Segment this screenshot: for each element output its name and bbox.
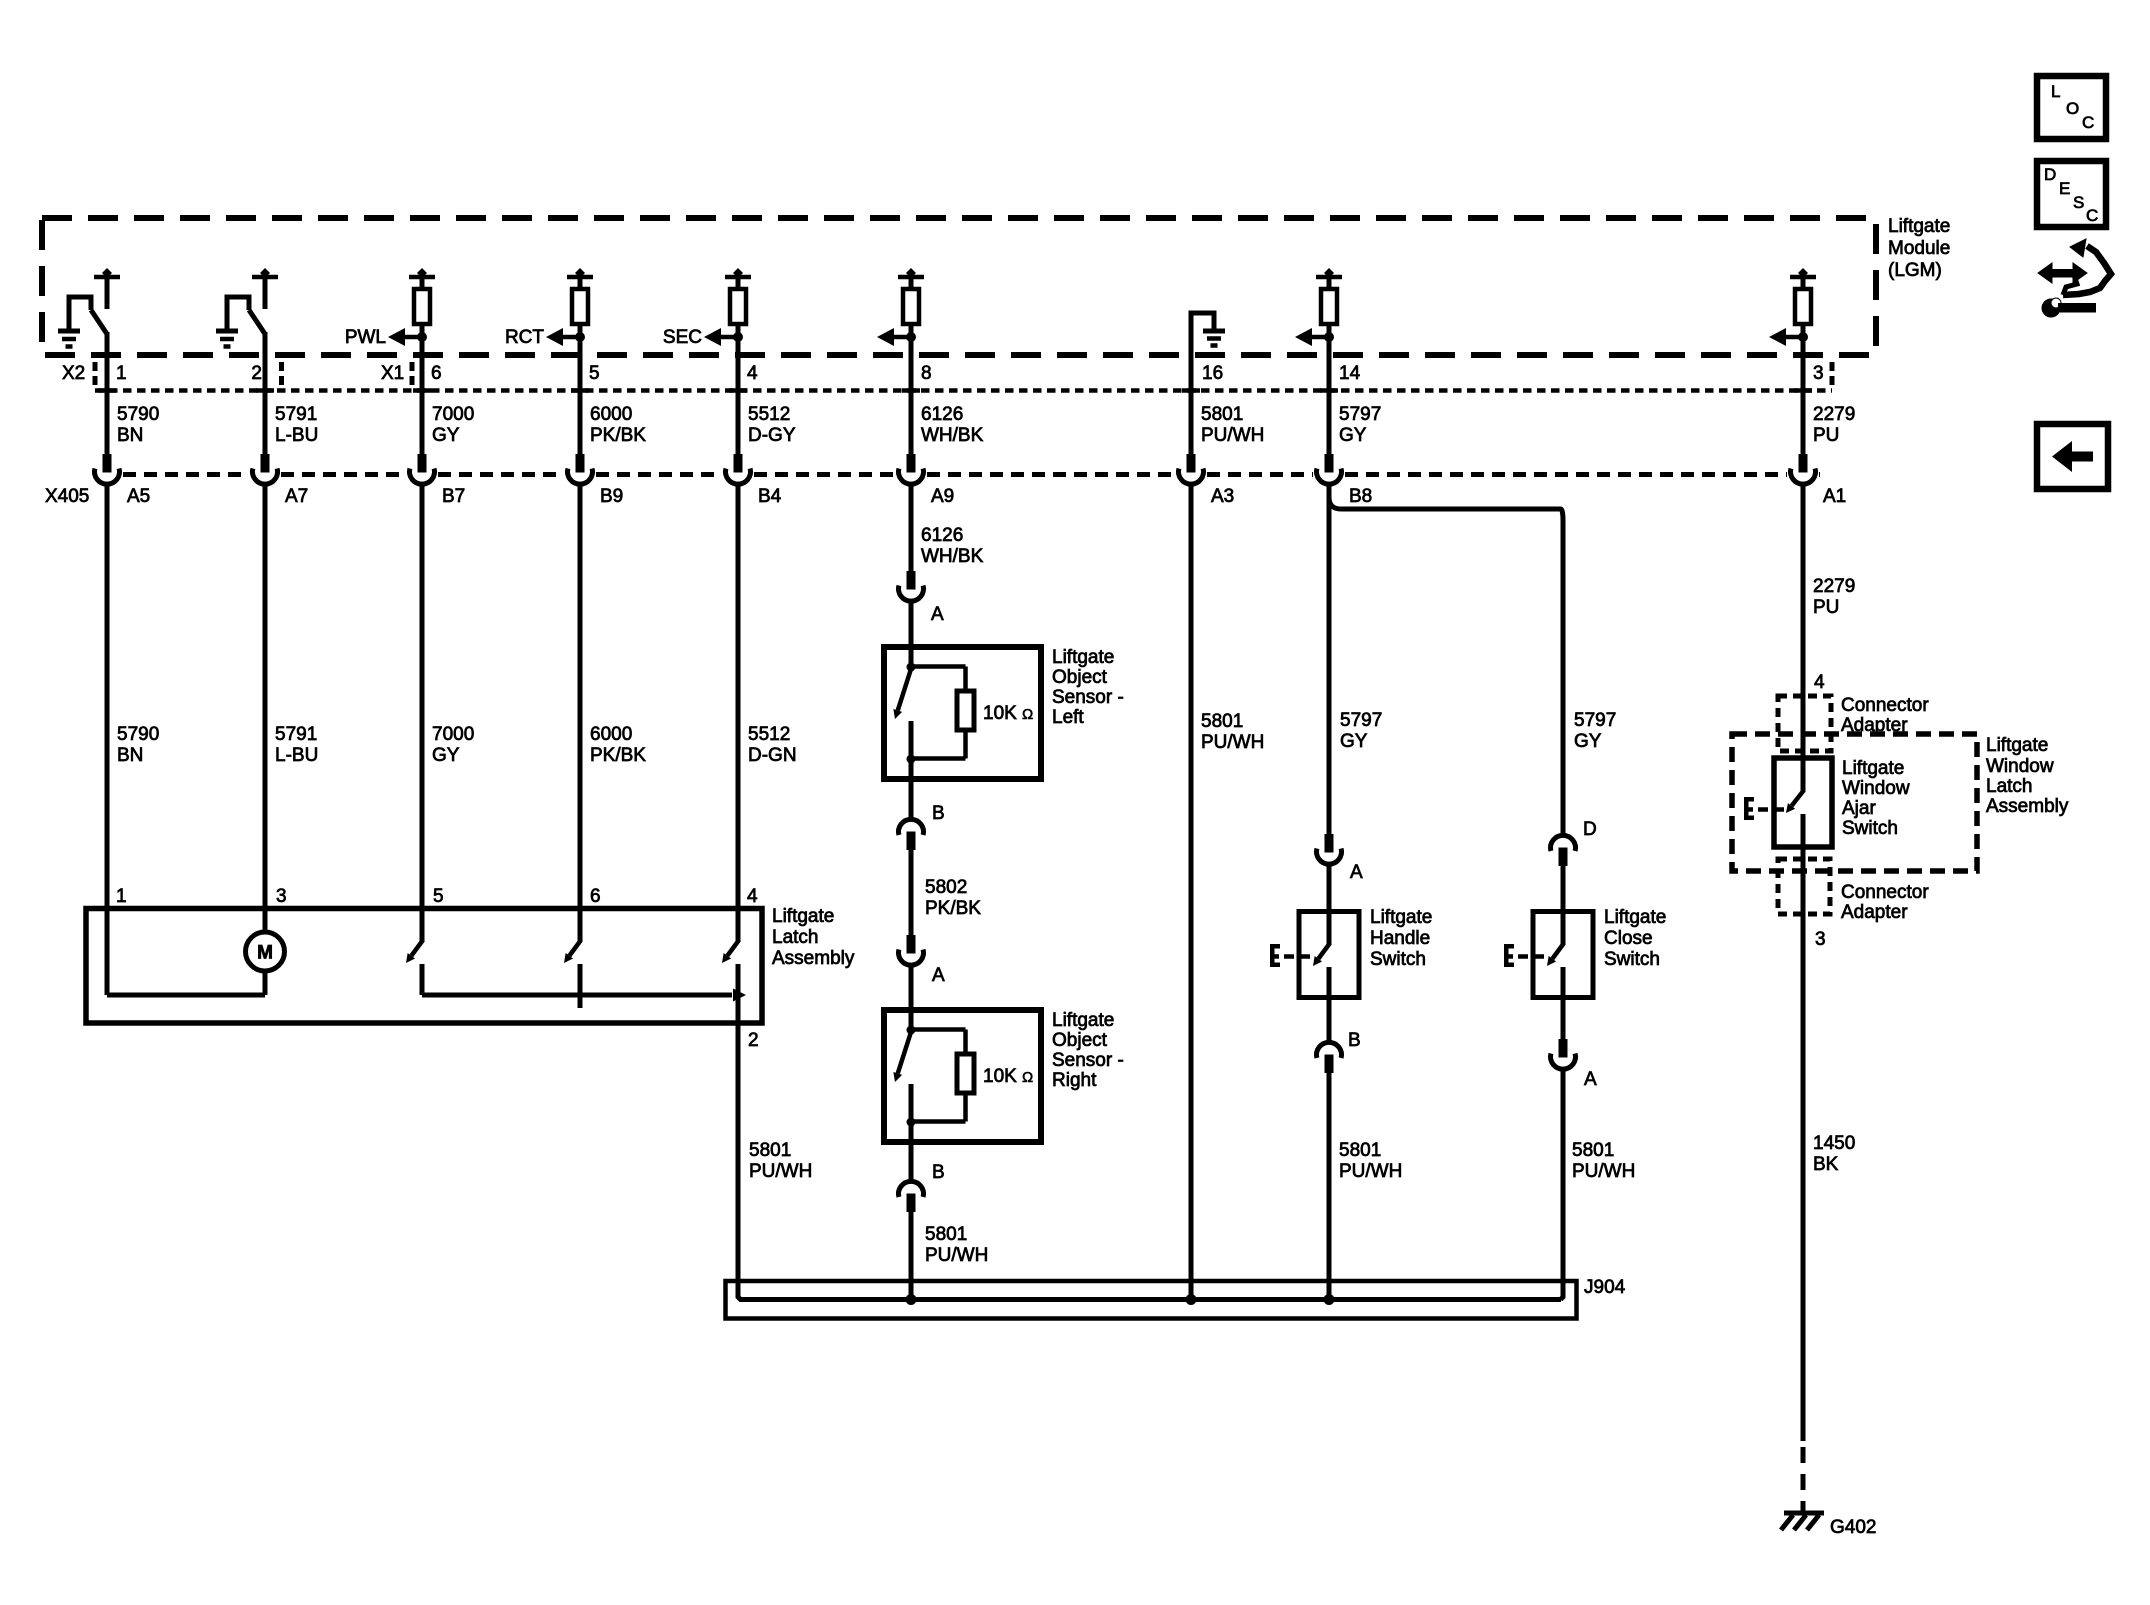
switch lower contact / wire out (1801, 814, 1806, 1441)
terminal T-bar (1790, 275, 1816, 280)
terminal diamond (417, 268, 427, 278)
svg-text:A5: A5 (127, 486, 150, 507)
output arrow (1309, 335, 1329, 340)
wire 5790 (to latch pin 1) (105, 485, 110, 995)
upper contact dot (907, 1026, 916, 1035)
svg-text:Ω: Ω (1022, 706, 1033, 723)
wire 2279 (A1 down) (1801, 485, 1806, 758)
svg-text:PU/WH: PU/WH (925, 1245, 988, 1266)
liftgate object sensor right box (884, 1010, 1041, 1142)
wire latch pin1 to bus (105, 909, 110, 996)
svg-text:B4: B4 (758, 486, 782, 507)
inline connector B (below left sensor) (899, 819, 924, 835)
svg-text:5801: 5801 (749, 1140, 791, 1161)
connector X405 pin B7 (418, 454, 427, 473)
svg-text:PU/WH: PU/WH (1572, 1161, 1635, 1182)
svg-text:Left: Left (1052, 707, 1084, 728)
terminal T-bar (898, 275, 924, 280)
inline connector A (above right sensor) (907, 935, 916, 954)
connector X405 pin A1 (1799, 454, 1808, 473)
svg-text:10K: 10K (983, 703, 1017, 724)
wire (578, 277, 583, 290)
wire crossing tick (1182, 388, 1200, 393)
svg-text:Liftgate: Liftgate (772, 906, 834, 927)
junction arrow at latch output (733, 989, 746, 1002)
svg-text:A: A (932, 965, 945, 986)
wire (909, 1142, 914, 1181)
switch blade (249, 310, 265, 334)
wire crossing tick (571, 388, 589, 393)
wire (420, 277, 425, 290)
svg-text:Liftgate: Liftgate (1986, 735, 2048, 756)
J904 splice bus (740, 1297, 1561, 1302)
E terminal (1270, 944, 1275, 967)
junction dot at J904 bus (1186, 1294, 1197, 1305)
svg-text:PU/WH: PU/WH (1339, 1161, 1402, 1182)
wire 5801 to J904 (909, 1212, 914, 1300)
X405 inline connector dashed line (123, 472, 249, 477)
switch blade (1792, 790, 1804, 806)
svg-text:5797: 5797 (1574, 710, 1616, 731)
switch fixed contact (1327, 912, 1332, 945)
svg-text:J904: J904 (1584, 1277, 1626, 1298)
svg-text:Connector: Connector (1841, 695, 1929, 716)
connector group separator after pin 2 (279, 362, 284, 390)
svg-text:A: A (1584, 1069, 1597, 1090)
inline connector A (above handle switch) (1325, 834, 1334, 853)
svg-text:Latch: Latch (772, 927, 818, 948)
wire 5801 to J904 (right end) (1561, 1069, 1564, 1300)
wire crossing tick (902, 388, 920, 393)
svg-text:B7: B7 (442, 486, 465, 507)
liftgate latch assembly box (86, 909, 762, 1024)
svg-text:Liftgate: Liftgate (1370, 907, 1432, 928)
switch fixed contact (263, 277, 268, 309)
svg-text:Liftgate: Liftgate (1052, 1010, 1114, 1031)
wire from resistor (bottom) (963, 1093, 968, 1122)
icon: LOC box (2037, 76, 2106, 139)
svg-text:7000: 7000 (432, 724, 474, 745)
lower contact stub (909, 721, 914, 759)
svg-text:5791: 5791 (275, 724, 317, 745)
svg-text:B9: B9 (600, 486, 623, 507)
svg-text:5790: 5790 (117, 404, 159, 425)
svg-text:Switch: Switch (1370, 949, 1426, 970)
svg-text:D: D (1583, 819, 1597, 840)
icon: DESC box (2037, 161, 2106, 227)
wire (1561, 998, 1566, 1040)
svg-text:5512: 5512 (748, 724, 790, 745)
connector group separator X1 (410, 362, 415, 390)
inline connector A (above left sensor) (907, 571, 916, 590)
svg-text:PU: PU (1813, 425, 1839, 446)
svg-text:L: L (2051, 82, 2060, 101)
lower contact stub (909, 1084, 914, 1122)
junction dot (1798, 332, 1808, 342)
svg-text:L-BU: L-BU (275, 425, 318, 446)
svg-text:GY: GY (432, 425, 460, 446)
wire (1801, 324, 1806, 357)
svg-text:10K: 10K (983, 1066, 1017, 1087)
wire 5802 (909, 850, 914, 935)
latch output wire pin 2 (736, 995, 741, 1023)
motor M (246, 932, 285, 971)
svg-text:Object: Object (1052, 667, 1108, 688)
wire into box (909, 1010, 914, 1030)
resistor (1321, 289, 1337, 324)
terminal diamond (102, 268, 112, 278)
terminal diamond (733, 268, 743, 278)
svg-text:A3: A3 (1211, 486, 1234, 507)
svg-text:Object: Object (1052, 1030, 1108, 1051)
wire (1327, 864, 1332, 912)
wire (1801, 277, 1806, 290)
svg-text:Handle: Handle (1370, 928, 1430, 949)
switch fixed contact (1801, 758, 1806, 791)
svg-text:Liftgate: Liftgate (1888, 216, 1950, 237)
wire crossing tick (98, 388, 116, 393)
svg-text:3: 3 (1815, 929, 1826, 950)
wire (420, 355, 425, 455)
switch blade (1552, 943, 1564, 959)
svg-text:D: D (2044, 165, 2056, 184)
switch blade (898, 1032, 911, 1073)
svg-text:5: 5 (589, 363, 600, 384)
svg-text:A: A (1350, 862, 1363, 883)
svg-text:PK/BK: PK/BK (590, 745, 646, 766)
svg-text:E: E (2059, 179, 2070, 198)
wire (105, 332, 110, 357)
svg-text:Window: Window (1842, 778, 1910, 799)
resistor 10K (957, 1054, 974, 1093)
wire 5791 (to latch pin 3) (263, 485, 268, 933)
inline connector B (below handle switch) (1317, 1042, 1342, 1058)
wire 6000 (to latch pin 6) (578, 485, 583, 941)
wire 5801 (latch pin 2 to J904) (738, 1023, 911, 1300)
svg-text:2279: 2279 (1813, 576, 1855, 597)
svg-text:PK/BK: PK/BK (590, 425, 646, 446)
svg-text:Liftgate: Liftgate (1052, 647, 1114, 668)
connector X405 pin B4 (734, 454, 743, 473)
wire (909, 965, 914, 1011)
svg-text:BK: BK (1813, 1154, 1839, 1175)
svg-text:PU/WH: PU/WH (1201, 425, 1264, 446)
output arrow (1783, 335, 1803, 340)
terminal T-bar (252, 275, 278, 280)
connector X405 pin A9 (907, 454, 916, 473)
terminal diamond (906, 268, 916, 278)
ground symbol (module internal) (1203, 329, 1225, 334)
junction dot (417, 332, 427, 342)
wire (909, 277, 914, 290)
output arrow SEC (718, 335, 738, 340)
wire (578, 355, 583, 455)
ground symbol (module internal) (216, 329, 238, 334)
svg-text:5512: 5512 (748, 404, 790, 425)
svg-text:WH/BK: WH/BK (921, 425, 984, 446)
svg-text:Assembly: Assembly (1986, 796, 2069, 817)
resistor (1795, 289, 1811, 324)
liftgate window latch assembly dashed box (1732, 734, 1977, 871)
wire to resistor (top) (911, 664, 966, 669)
svg-text:RCT: RCT (505, 327, 544, 348)
svg-text:S: S (2073, 193, 2084, 212)
svg-text:PU/WH: PU/WH (749, 1161, 812, 1182)
wire up from pin 16 (1191, 313, 1214, 357)
svg-text:WH/BK: WH/BK (921, 546, 984, 567)
wire crossing tick (256, 388, 274, 393)
svg-text:Liftgate: Liftgate (1604, 907, 1666, 928)
svg-text:5797: 5797 (1339, 404, 1381, 425)
svg-text:Latch: Latch (1986, 776, 2032, 797)
wire (736, 355, 741, 455)
wire from resistor (bottom) (963, 730, 968, 759)
svg-text:2: 2 (251, 363, 262, 384)
svg-text:C: C (2082, 113, 2094, 132)
junction dot (575, 332, 585, 342)
svg-text:A9: A9 (931, 486, 954, 507)
svg-text:GY: GY (1340, 731, 1368, 752)
output arrow RCT (560, 335, 580, 340)
inline connector B (below right sensor) (899, 1181, 924, 1197)
switch blade (91, 310, 107, 334)
svg-text:Switch: Switch (1842, 818, 1898, 839)
svg-text:Close: Close (1604, 928, 1653, 949)
E dashed link (1284, 954, 1294, 959)
wire (1561, 866, 1566, 912)
svg-text:Ω: Ω (1022, 1069, 1033, 1086)
svg-text:6126: 6126 (921, 525, 963, 546)
latch switch (pin 6) (578, 909, 583, 942)
resistor 10K (957, 691, 974, 730)
connector X405 pin A5 (103, 454, 112, 473)
svg-text:L-BU: L-BU (275, 745, 318, 766)
latch switch (pin 4) (736, 909, 741, 942)
connector X405 pin B8 (1325, 454, 1334, 473)
svg-text:Adapter: Adapter (1841, 902, 1908, 923)
svg-text:6000: 6000 (590, 724, 632, 745)
svg-text:5801: 5801 (925, 1224, 967, 1245)
svg-text:4: 4 (747, 886, 758, 907)
svg-text:2: 2 (748, 1030, 759, 1051)
switch fixed contact (105, 277, 110, 309)
wire (1327, 355, 1332, 455)
svg-text:14: 14 (1339, 363, 1361, 384)
terminal T-bar (409, 275, 435, 280)
wire motor to bus (263, 971, 268, 995)
wire (1189, 355, 1194, 455)
wire 6126 (A9 down) (909, 485, 914, 571)
connector X405 pin A3 (1187, 454, 1196, 473)
svg-text:A7: A7 (285, 486, 308, 507)
connector group separator X2 (93, 362, 98, 390)
connector adapter dashed box (upper) (1778, 696, 1831, 751)
wire 5801 to J904 (1327, 1073, 1332, 1300)
connector X405 pin B9 (576, 454, 585, 473)
wire out of box (909, 1122, 914, 1142)
svg-text:D-GY: D-GY (748, 425, 796, 446)
svg-text:Right: Right (1052, 1070, 1097, 1091)
liftgate window ajar switch box (1774, 758, 1832, 847)
svg-text:PWL: PWL (345, 327, 386, 348)
junction dot (1324, 332, 1334, 342)
svg-text:5791: 5791 (275, 404, 317, 425)
svg-text:Assembly: Assembly (772, 948, 855, 969)
E terminal (1504, 944, 1509, 967)
terminal diamond (1798, 268, 1808, 278)
wire (736, 277, 741, 290)
svg-text:PU: PU (1813, 597, 1839, 618)
wire (263, 332, 268, 357)
wire (1327, 998, 1332, 1043)
E dashed link (1518, 954, 1528, 959)
svg-text:SEC: SEC (663, 327, 702, 348)
svg-text:O: O (2066, 99, 2079, 118)
output arrow (891, 335, 911, 340)
wire to ground (69, 297, 91, 329)
svg-text:5801: 5801 (1201, 404, 1243, 425)
svg-text:G402: G402 (1830, 1517, 1876, 1538)
svg-text:Connector: Connector (1841, 882, 1929, 903)
svg-text:Sensor -: Sensor - (1052, 687, 1124, 708)
svg-text:X2: X2 (62, 363, 85, 384)
svg-text:GY: GY (1339, 425, 1367, 446)
wire (1327, 277, 1332, 290)
svg-text:M: M (257, 943, 273, 964)
svg-text:A: A (931, 604, 944, 625)
svg-text:5801: 5801 (1339, 1140, 1381, 1161)
lower contact dot (907, 1118, 916, 1127)
ground G402 (chassis) (1784, 1511, 1824, 1516)
switch blade (898, 669, 911, 710)
svg-text:8: 8 (921, 363, 932, 384)
wire crossing tick (1320, 388, 1338, 393)
junction dot (733, 332, 743, 342)
svg-text:B8: B8 (1349, 486, 1372, 507)
wire (909, 355, 914, 455)
wire out of box (909, 759, 914, 779)
svg-text:1: 1 (116, 886, 127, 907)
terminal diamond (260, 268, 270, 278)
junction dot at J904 bus (1324, 1294, 1335, 1305)
svg-text:D-GN: D-GN (748, 745, 797, 766)
svg-text:GY: GY (432, 745, 460, 766)
svg-text:5802: 5802 (925, 877, 967, 898)
svg-text:5: 5 (433, 886, 444, 907)
wire (263, 355, 268, 455)
wire crossing tick (729, 388, 747, 393)
wire into box (909, 647, 914, 667)
svg-text:X1: X1 (381, 363, 404, 384)
wire (420, 324, 425, 357)
icon: component view (arrows and wrench) (2038, 239, 2111, 317)
svg-text:Sensor -: Sensor - (1052, 1050, 1124, 1071)
terminal diamond (1324, 268, 1334, 278)
terminal T-bar (725, 275, 751, 280)
resistor (903, 289, 919, 324)
module pin row dotted line (95, 388, 1832, 393)
svg-text:5790: 5790 (117, 724, 159, 745)
svg-text:6: 6 (590, 886, 601, 907)
E dashed link (1758, 807, 1768, 812)
svg-text:X405: X405 (45, 486, 89, 507)
svg-text:C: C (2086, 206, 2098, 225)
resistor (414, 289, 430, 324)
icon: left arrow box (2037, 424, 2108, 489)
svg-text:6126: 6126 (921, 404, 963, 425)
switch lower contact (1561, 967, 1566, 998)
svg-text:5797: 5797 (1340, 710, 1382, 731)
resistor (730, 289, 746, 324)
svg-text:PU/WH: PU/WH (1201, 732, 1264, 753)
wire (578, 324, 583, 357)
wire (736, 324, 741, 357)
wire 5512 (to latch pin 4) (736, 485, 741, 941)
connector X405 pin A7 (261, 454, 270, 473)
svg-text:6000: 6000 (590, 404, 632, 425)
svg-text:(LGM): (LGM) (1888, 260, 1942, 281)
svg-text:3: 3 (276, 886, 287, 907)
svg-text:1: 1 (116, 363, 127, 384)
switch lower contact (1327, 967, 1332, 998)
svg-text:Window: Window (1986, 756, 2054, 777)
wire to resistor (top) (911, 1027, 966, 1032)
svg-text:Liftgate: Liftgate (1842, 758, 1904, 779)
connector adapter dashed box (lower) (1778, 859, 1830, 914)
svg-text:4: 4 (747, 363, 758, 384)
terminal T-bar (567, 275, 593, 280)
svg-text:16: 16 (1202, 363, 1223, 384)
inline connector A (below close switch) (1559, 1039, 1568, 1058)
wire 7000 (to latch pin 5) (420, 485, 425, 941)
svg-text:6: 6 (431, 363, 442, 384)
wire (1327, 324, 1332, 357)
svg-text:A1: A1 (1823, 486, 1846, 507)
wire 5797 (B8 down) (1327, 485, 1332, 834)
svg-text:GY: GY (1574, 731, 1602, 752)
switch blade (1318, 943, 1330, 959)
junction dot at J904 bus (906, 1294, 917, 1305)
wire (105, 355, 110, 455)
resistor (572, 289, 588, 324)
upper contact dot (907, 663, 916, 672)
lower contact dot (907, 755, 916, 764)
svg-text:5801: 5801 (1572, 1140, 1614, 1161)
svg-text:1450: 1450 (1813, 1133, 1855, 1154)
svg-text:2279: 2279 (1813, 404, 1855, 425)
wire (909, 324, 914, 357)
svg-text:B: B (1348, 1030, 1361, 1051)
svg-text:Switch: Switch (1604, 949, 1660, 970)
svg-text:B: B (932, 803, 945, 824)
terminal diamond (575, 268, 585, 278)
svg-text:BN: BN (117, 425, 143, 446)
svg-text:5801: 5801 (1201, 711, 1243, 732)
switch fixed contact (1561, 912, 1566, 945)
switch box (1299, 912, 1359, 998)
latch switch (pin 5) (420, 909, 425, 942)
liftgate module (LGM) dashed box (42, 218, 1876, 355)
terminal T-bar (1316, 275, 1342, 280)
wire 5801 (A3 to J904) (1189, 485, 1194, 1300)
svg-text:Ajar: Ajar (1842, 798, 1876, 819)
wire crossing tick (1794, 388, 1812, 393)
inline connector D (above close switch) (1551, 835, 1576, 851)
dashed wire to ground (1801, 1447, 1806, 1512)
svg-text:Module: Module (1888, 238, 1950, 259)
junction dot (906, 332, 916, 342)
svg-text:BN: BN (117, 745, 143, 766)
